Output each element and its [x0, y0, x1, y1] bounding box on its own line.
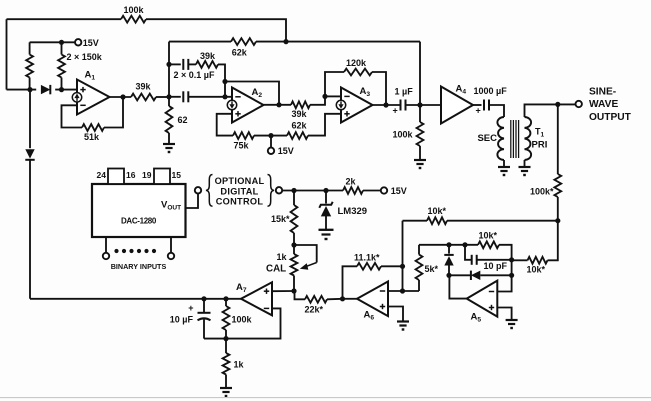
wire A3 output to cap — [373, 104, 401, 106]
ground (LM329) — [319, 229, 334, 231]
ground (100k) — [414, 159, 426, 161]
op-amp A4 — [441, 87, 473, 124]
op-amp A7 — [241, 282, 272, 315]
wire divider to lower 10k* — [548, 221, 558, 261]
op-amp A2 plus input — [235, 113, 240, 115]
transformer T1 primary winding — [525, 117, 532, 160]
capacitor 0.1uF upper — [169, 63, 181, 65]
wire A1 output — [110, 96, 132, 98]
node twin-T lower — [166, 94, 171, 99]
ground (T1 PRI) — [519, 166, 531, 168]
brace left (optional digital control) — [206, 175, 213, 207]
wire A4 output — [473, 104, 482, 106]
wire 10k* row A — [403, 220, 428, 222]
ground (A6 plus) — [397, 320, 409, 322]
diode D3 (limiter, cathode left) — [449, 274, 471, 276]
node 11.1k junction — [400, 264, 405, 269]
svg-text:15V: 15V — [278, 146, 294, 156]
node 1uF output junction — [417, 102, 422, 107]
terminal 15V (reference) — [381, 187, 387, 193]
node top row junction — [283, 39, 288, 44]
node A3 minus input — [322, 94, 327, 99]
node 15k tap — [291, 188, 296, 193]
op-amp A2 minus input — [235, 96, 240, 98]
terminal 15V (75k row) — [268, 148, 274, 154]
terminal VOUT — [195, 187, 201, 193]
terminal reference input — [276, 187, 282, 193]
wire A2 feedback — [225, 82, 279, 105]
svg-text:PRI: PRI — [532, 140, 548, 151]
svg-text:39k: 39k — [292, 109, 308, 119]
op-amp A2 — [232, 88, 264, 123]
node cap right — [509, 257, 514, 262]
svg-text:CAL: CAL — [266, 264, 286, 275]
svg-text:51k: 51k — [84, 132, 100, 142]
svg-text:15: 15 — [172, 170, 182, 180]
terminal 15V (A1 bias) — [75, 39, 81, 45]
op-amp A5 minus input — [489, 291, 494, 293]
node 100k tap — [223, 296, 228, 301]
op-amp A6 plus input — [380, 306, 385, 308]
svg-text:10k*: 10k* — [479, 231, 498, 241]
svg-text:16: 16 — [126, 170, 136, 180]
svg-text:BINARY INPUTS: BINARY INPUTS — [111, 262, 167, 271]
IC DAC-1280 body — [92, 184, 186, 237]
svg-text:10 µF: 10 µF — [170, 314, 194, 324]
pin tab 19/15 — [154, 169, 170, 185]
wire A2 to A3 — [264, 104, 292, 106]
node A7 plus junction — [291, 288, 296, 293]
svg-text:24: 24 — [97, 170, 107, 180]
svg-text:10k*: 10k* — [527, 264, 546, 274]
resistor 100k* (output divider) — [557, 104, 559, 174]
op-amp A2 current source — [227, 100, 236, 109]
node twin-T upper — [166, 62, 171, 67]
svg-text:1 µF: 1 µF — [395, 86, 414, 96]
node feedback tap — [222, 79, 227, 84]
node sine output junction — [555, 102, 560, 107]
resistor 2k — [343, 187, 363, 194]
svg-text:100k*: 100k* — [530, 186, 554, 196]
op-amp A1 — [77, 80, 110, 115]
wire A2 plus to 75k — [217, 114, 233, 136]
wire A7 output (DC feedback) — [30, 298, 241, 300]
brace right (optional digital control) — [268, 175, 275, 207]
node A1 output — [120, 94, 125, 99]
op-amp A7 plus input — [264, 290, 269, 292]
svg-text:5k*: 5k* — [425, 264, 439, 274]
node diode row left — [446, 273, 451, 278]
svg-text:1000 µF: 1000 µF — [474, 86, 508, 96]
svg-text:2k: 2k — [346, 176, 357, 186]
wire A6 minus row — [388, 290, 419, 292]
wire reference row — [282, 190, 343, 192]
node A6 minus junction — [400, 288, 405, 293]
svg-text:15V: 15V — [83, 38, 99, 48]
node 15V tap on 75k row — [268, 133, 273, 138]
op-amp A7 minus input — [264, 307, 269, 309]
wire twin-T left column — [168, 42, 170, 97]
svg-text:2 × 150k: 2 × 150k — [67, 52, 103, 62]
svg-text:SEC: SEC — [477, 133, 497, 144]
svg-text:+: + — [188, 303, 193, 313]
svg-text:10 pF: 10 pF — [484, 261, 508, 271]
wire 15V row to A1 bias — [30, 41, 75, 43]
wire 75k row to 62k — [254, 135, 287, 137]
node divider junction — [555, 218, 560, 223]
op-amp A6 — [357, 282, 388, 317]
node A7 minus junction — [223, 336, 228, 341]
svg-text:2 × 0.1 µF: 2 × 0.1 µF — [174, 70, 215, 80]
wire VOUT to terminal — [186, 194, 198, 209]
svg-text:19: 19 — [142, 170, 152, 180]
capacitor 10pF — [465, 245, 472, 260]
node A2 minus input — [222, 94, 227, 99]
svg-text:LM329: LM329 — [338, 206, 368, 217]
resistor 15k* — [293, 191, 295, 206]
node 10uF tap — [201, 296, 206, 301]
node diode top — [446, 242, 451, 247]
resistor 10k* (lower right) — [528, 257, 548, 264]
svg-text:CONTROL: CONTROL — [216, 196, 264, 206]
resistor 10k* (row A) — [427, 217, 447, 224]
svg-text:SINE-: SINE- — [589, 86, 616, 97]
diode D4 (feedback rail) — [29, 90, 31, 149]
pin binary input right — [170, 237, 172, 253]
wire A1 input row — [7, 89, 37, 91]
svg-text:15V: 15V — [391, 186, 407, 196]
resistor 22k* — [295, 291, 306, 299]
resistor 10k* (A5 feedback) — [478, 241, 499, 248]
svg-text:+: + — [476, 106, 481, 116]
wire A6 plus to ground — [388, 307, 403, 322]
pot wiper — [294, 245, 317, 263]
wire to output terminal — [558, 103, 576, 105]
wire A5 minus — [497, 275, 511, 291]
wire A6 output — [343, 298, 358, 300]
resistor 39k (A1 to A2) — [131, 94, 156, 101]
svg-text:22k*: 22k* — [305, 304, 324, 314]
node A1 input right — [59, 87, 64, 92]
svg-text:OUTPUT: OUTPUT — [589, 112, 632, 123]
wire top 100k feedback rail — [7, 18, 122, 20]
resistor 62 (to ground) — [168, 97, 170, 106]
resistor 1k (A7) — [225, 339, 227, 353]
op-amp A3 minus input — [344, 95, 349, 97]
svg-text:10k*: 10k* — [428, 206, 447, 216]
node cap top — [462, 242, 467, 247]
svg-text:39k: 39k — [200, 51, 216, 61]
op-amp A3 current source — [336, 100, 345, 109]
node LM329 tap — [323, 188, 328, 193]
binary inputs dots — [114, 249, 118, 253]
potentiometer 1k CAL — [293, 245, 295, 254]
svg-text:DIGITAL: DIGITAL — [220, 186, 258, 196]
svg-text:11.1k*: 11.1k* — [354, 252, 380, 262]
wire row B — [419, 244, 478, 246]
node A1 input left — [27, 87, 32, 92]
resistor 51k (A1 feedback) — [82, 124, 104, 131]
wire A1 feedback loop — [62, 105, 83, 127]
resistor 39k (A2 to A3) — [291, 101, 310, 108]
zener LM329 — [325, 191, 327, 204]
wire A7 plus — [272, 290, 294, 292]
resistor 120k (A3 feedback) — [344, 69, 372, 76]
op-amp A1 minus input — [80, 104, 85, 106]
resistor 150k left (2x150k) — [29, 42, 31, 54]
wire 120k feedback — [325, 72, 344, 96]
svg-text:39k: 39k — [136, 82, 152, 92]
page edge artifact — [0, 397, 651, 399]
resistor 150k right (2x150k) — [61, 42, 63, 54]
resistor 39k (upper branch) — [188, 63, 196, 65]
svg-text:+: + — [393, 106, 398, 116]
svg-text:120k: 120k — [346, 58, 367, 68]
terminal sine-wave output — [576, 101, 582, 107]
node A2 output — [276, 102, 281, 107]
capacitor 10uF — [203, 299, 205, 313]
resistor 75k (A2 feedback) — [233, 132, 254, 139]
op-amp A1 current source — [72, 93, 81, 102]
wire A5 plus to ground — [497, 308, 511, 321]
resistor 62k (to A3 plus) — [287, 132, 308, 139]
ground (62 resistor) — [163, 143, 175, 145]
wire A5 output — [449, 275, 466, 298]
svg-text:1k: 1k — [234, 360, 245, 370]
node diode row right — [509, 273, 514, 278]
resistor 100k (A7) — [225, 299, 227, 306]
wire A7 minus loop — [204, 308, 281, 338]
resistor 5k* — [418, 245, 420, 255]
svg-text:75k: 75k — [234, 141, 250, 151]
op-amp A3 — [341, 88, 373, 123]
ground (A5 plus) — [506, 319, 518, 321]
svg-text:62k: 62k — [292, 121, 308, 131]
wire left margin vertical — [6, 19, 8, 89]
op-amp A1 plus input — [80, 89, 85, 91]
wire 15V stub — [270, 136, 272, 148]
svg-text:1k: 1k — [277, 252, 288, 262]
svg-text:62k: 62k — [232, 48, 248, 58]
diode D1 (input clamp) — [41, 85, 50, 94]
svg-text:WAVE: WAVE — [589, 99, 618, 110]
diode D2 (limiter, cathode up) — [448, 245, 450, 254]
resistor 11.1k* (A6 feedback) — [381, 265, 403, 267]
wire vertical to row A — [402, 221, 404, 291]
svg-text:100k: 100k — [124, 5, 145, 15]
svg-text:OPTIONAL: OPTIONAL — [215, 176, 265, 186]
wire 62k top row — [169, 41, 231, 43]
resistor 62k (top row) — [231, 38, 256, 45]
ground (T1 SEC) — [498, 166, 510, 168]
capacitor 0.1uF lower — [169, 96, 181, 98]
svg-text:DAC-1280: DAC-1280 — [121, 217, 157, 226]
node A6 output — [340, 296, 345, 301]
capacitor 1000uF — [483, 100, 485, 111]
resistor 100k (to ground) — [419, 105, 421, 122]
transformer T1 secondary winding — [497, 117, 504, 160]
op-amp A5 — [467, 281, 498, 317]
node CAL top — [291, 242, 296, 247]
capacitor 1uF — [400, 100, 402, 111]
ground (1k) — [220, 387, 232, 389]
svg-text:15k*: 15k* — [271, 214, 290, 224]
svg-text:100k: 100k — [232, 314, 253, 324]
pin tab 24/16 — [108, 169, 124, 185]
node 15V bias junction — [59, 40, 64, 45]
svg-text:100k: 100k — [393, 130, 414, 140]
wire A3 minus input — [325, 95, 341, 97]
op-amp A3 plus input — [344, 113, 349, 115]
op-amp A5 plus input — [489, 307, 494, 309]
transformer T1 core — [510, 120, 512, 158]
resistor 100k (top feedback) — [121, 16, 146, 23]
node A3 output — [383, 102, 388, 107]
op-amp A6 minus input — [380, 290, 385, 292]
pin binary input left — [105, 237, 107, 253]
svg-text:62: 62 — [178, 115, 188, 125]
